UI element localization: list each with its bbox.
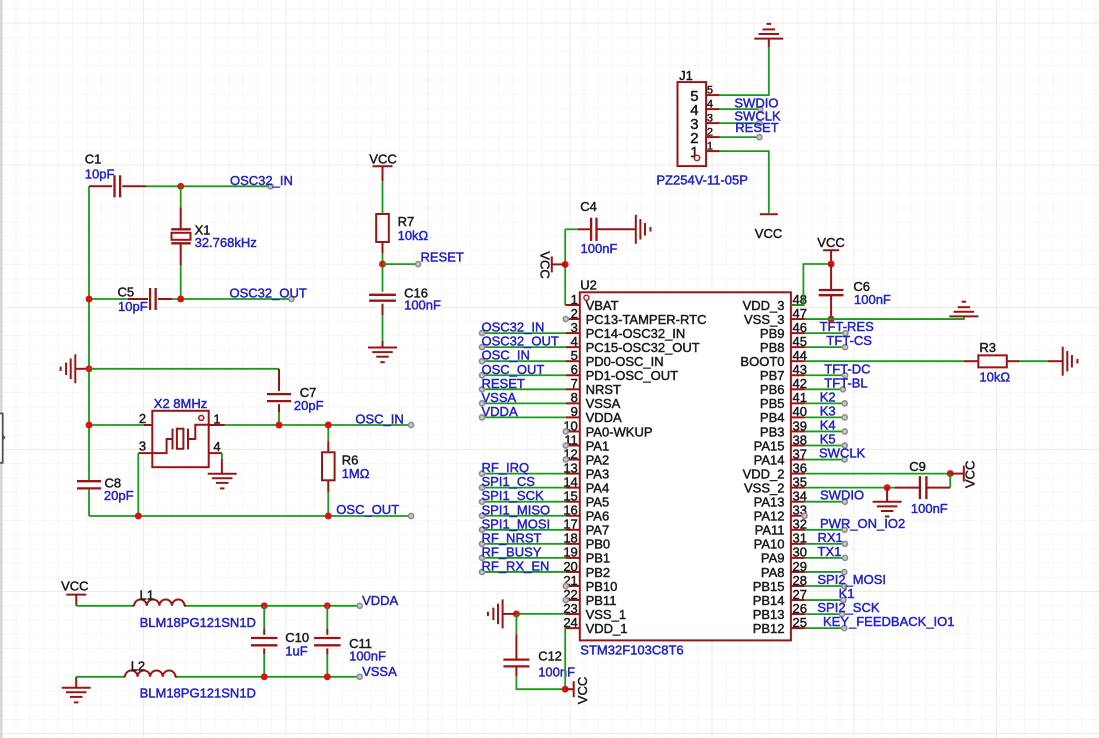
resistor R7 [376,214,428,253]
net label K1 (U2 pin 27) [839,586,855,603]
svg-text:RF_RX_EN: RF_RX_EN [482,558,550,573]
partial component (left edge) [0,414,6,463]
svg-text:VSSA: VSSA [586,396,621,411]
net label SPI1_MOSI (U2 pin 17) [479,516,550,532]
net label RESET [416,250,464,267]
svg-text:VSS_3: VSS_3 [744,312,784,327]
net label VSSA [357,664,397,679]
svg-text:7: 7 [571,376,578,391]
power VCC (L1) [61,579,88,606]
value BLM18PG121SN1D (L1) [140,615,256,630]
pin 10 PA0-WKUP [563,418,652,439]
net label VSSA (U2 pin 8) [479,390,516,406]
svg-text:1: 1 [707,141,713,153]
svg-text:OSC_IN: OSC_IN [355,411,403,426]
svg-text:R7: R7 [398,214,415,229]
svg-text:VDDA: VDDA [482,404,518,419]
net label OSC32_IN [230,173,293,189]
stub pin 12 [563,457,568,462]
svg-text:SWDIO: SWDIO [820,488,864,503]
resistor R3 [978,340,1019,384]
svg-text:10pF: 10pF [118,299,148,314]
svg-text:VCC: VCC [817,235,844,250]
node junction VDDA/C11 [324,602,331,609]
svg-text:6: 6 [571,362,578,377]
net label OSC32_OUT [230,286,307,302]
connector J1 [678,68,720,166]
svg-text:K3: K3 [820,403,836,418]
power VCC (VBAT) [537,251,565,278]
svg-text:PA11: PA11 [755,523,785,538]
svg-text:K5: K5 [820,432,836,447]
svg-text:BLM18PG121SN1D: BLM18PG121SN1D [140,686,256,701]
net label RESET (U2 pin 7) [479,376,524,392]
wire VDD_1 down [564,628,567,689]
svg-text:J1: J1 [679,68,693,83]
net label OSC32_OUT (U2 pin 4) [479,334,558,350]
pin 2 PC13-TAMPER-RTC [566,306,706,327]
svg-text:VCC: VCC [61,579,88,594]
svg-text:RESET: RESET [421,250,464,265]
svg-text:TFT-DC: TFT-DC [824,361,870,376]
pin 27 PB14 [753,587,807,608]
wire U2 pin 8 [482,402,566,404]
wire U2 pin 14 [482,487,566,489]
stub pin 22 [563,598,568,603]
svg-text:PC13-TAMPER-RTC: PC13-TAMPER-RTC [586,312,707,327]
capacitor C9 [895,459,950,516]
svg-text:32.768kHz: 32.768kHz [195,235,257,250]
ferrite bead L1 [134,587,184,606]
node junction C7/OSC_IN [276,422,283,429]
wire U2 pin 27 [805,599,844,601]
svg-text:5: 5 [707,85,713,97]
wire C9 loop [949,474,951,488]
pin 42 PB6 [760,376,807,397]
svg-text:RESET: RESET [482,376,525,391]
wire VDDA row [76,605,359,607]
pin 40 PB4 [760,404,807,425]
svg-text:PB9: PB9 [760,326,785,341]
node junction VSSA/C11 [324,673,331,680]
IC U2 STM32F103C8T6 [580,277,791,640]
net label RF_NRST (U2 pin 18) [479,530,541,546]
svg-text:TX1: TX1 [818,544,842,559]
capacitor C10 [251,606,309,677]
ground rail wire (left vertical) [88,186,90,516]
node junction R6/OSC_IN [325,422,332,429]
wire RESET stub [383,263,419,265]
svg-text:VDDA: VDDA [362,593,398,608]
net label RF_BUSY (U2 pin 19) [479,544,541,560]
wire U2 pin 39 [805,430,845,432]
svg-text:C9: C9 [909,459,926,474]
net label RX1 (U2 pin 31) [818,530,848,547]
svg-text:VDD_2: VDD_2 [743,466,785,481]
node junction VCC/VBAT [562,261,569,268]
svg-text:OSC32_IN: OSC32_IN [482,320,545,335]
svg-text:VCC: VCC [963,461,978,488]
capacitor C5 [118,285,156,315]
svg-text:1: 1 [213,412,220,427]
svg-text:5: 5 [571,348,578,363]
wire U2 pin 28 [805,585,845,587]
svg-text:PB4: PB4 [760,410,785,425]
svg-text:SPI1_MOSI: SPI1_MOSI [482,516,551,531]
svg-text:PA10: PA10 [754,537,785,552]
net label K4 (U2 pin 39) [820,417,848,434]
ground C16 [368,348,397,363]
value STM32F103C8T6 [580,643,683,658]
svg-text:PA15: PA15 [754,438,785,453]
net label SPI1_CS (U2 pin 14) [479,474,535,490]
svg-text:OSC32_OUT: OSC32_OUT [482,334,559,349]
svg-text:PB0: PB0 [586,537,611,552]
net label VDDA (U2 pin 9) [479,404,517,420]
svg-text:PA2: PA2 [586,452,610,467]
svg-text:BOOT0: BOOT0 [740,354,784,369]
net label TX1 (U2 pin 30) [818,544,848,561]
svg-text:3: 3 [139,439,146,454]
pin 35 VSS_2 [744,474,807,495]
svg-text:PA1: PA1 [586,438,610,453]
svg-text:4: 4 [571,334,578,349]
pin 11 PA1 [564,432,609,453]
svg-text:10pF: 10pF [85,167,115,182]
power VCC (J1) [755,214,782,241]
svg-text:RX1: RX1 [818,530,843,545]
wire U2 pin 31 [805,543,846,545]
pin 34 PA13 [754,489,807,510]
svg-text:RF_BUSY: RF_BUSY [482,544,542,559]
net label VDDA [357,593,398,608]
svg-text:100nF: 100nF [911,501,948,516]
node junction rail/ground [86,365,93,372]
power VCC (C9) [950,461,978,488]
wire U2 pin 7 [482,388,566,390]
stub pin 2 [563,317,568,322]
pin 21 PB10 [563,573,617,594]
wire VSS_3 to ground [805,316,964,319]
wire U2 pin 4 [482,346,566,348]
wire VDD_2 to VCC [805,473,951,475]
svg-text:PWR_ON_IO2: PWR_ON_IO2 [820,516,905,531]
svg-text:TFT-CS: TFT-CS [826,333,872,348]
wire U2 pin 13 [482,473,566,475]
svg-text:BLM18PG121SN1D: BLM18PG121SN1D [140,615,256,630]
net label TFT-CS (U2 pin 45) [826,333,872,350]
svg-text:100nF: 100nF [349,649,386,664]
ground L2 [62,688,91,703]
ground R3 (right earth) [1063,347,1078,376]
svg-text:PA13: PA13 [754,495,785,510]
svg-text:K2: K2 [820,389,836,404]
svg-text:VSSA: VSSA [482,390,517,405]
svg-text:C4: C4 [580,199,597,214]
wire U2 pin 37 [805,459,845,461]
net label SWDIO (U2 pin 34) [820,488,864,505]
ground C4 (right earth) [636,215,651,244]
wire J1 pin1 to VCC [720,151,769,213]
pin 28 PB15 [753,573,807,594]
wire X2 pin4 [209,453,222,474]
svg-text:1: 1 [571,292,578,307]
svg-text:L2: L2 [131,658,145,673]
svg-text:OSC32_OUT: OSC32_OUT [230,286,307,301]
svg-text:PB1: PB1 [586,551,611,566]
svg-text:KEY_FEEDBACK_IO1: KEY_FEEDBACK_IO1 [823,614,955,629]
wire U2 pin 6 [482,374,566,376]
svg-text:1uF: 1uF [285,643,307,658]
net label OSC_OUT [336,502,413,519]
stub pin 21 [563,583,568,588]
svg-text:C5: C5 [118,285,135,300]
svg-text:20pF: 20pF [294,398,324,413]
svg-text:VSS_1: VSS_1 [586,607,626,622]
capacitor C16 [369,286,441,348]
svg-text:VCC: VCC [537,251,552,278]
wire VSS_1 [516,613,566,615]
svg-text:PB6: PB6 [760,382,785,397]
svg-text:PA12: PA12 [754,509,785,524]
net label SPI1_SCK (U2 pin 15) [479,488,544,504]
wire VSS_2 to C9 [805,487,896,489]
net label RF_RX_EN (U2 pin 20) [479,558,549,574]
pin 32 PA11 [755,517,807,538]
pin 46 PB9 [760,320,807,341]
wire U2 pin 46 [805,332,846,334]
svg-text:SPI1_MISO: SPI1_MISO [482,502,551,517]
capacitor C6 [819,264,891,319]
pin 39 PB3 [760,418,807,439]
svg-text:R3: R3 [979,340,996,355]
node junction C6/VSS_3 [828,316,835,323]
svg-text:PD1-OSC_OUT: PD1-OSC_OUT [586,368,679,383]
wire OSC32_OUT row [89,298,292,300]
svg-text:OSC_OUT: OSC_OUT [482,362,545,377]
svg-text:100nF: 100nF [538,664,575,679]
svg-text:PB8: PB8 [760,340,785,355]
svg-text:2: 2 [707,127,713,139]
svg-text:PD0-OSC_IN: PD0-OSC_IN [586,354,664,369]
net label SWCLK (J1) [734,109,781,126]
ground VSS_3 (up earth) [949,302,978,317]
wire U2 pin 20 [482,571,566,573]
wire R3 to ground [1020,360,1063,362]
net label KEY_FEEDBACK_IO1 (U2 pin 25) [823,614,955,631]
pin 36 VDD_2 [743,460,807,481]
capacitor C7 [267,369,324,425]
net label SWDIO [734,95,778,111]
wire U2 pin 25 [805,627,845,629]
ground J1 top [754,24,783,47]
svg-text:2: 2 [139,411,146,426]
pin 9 VDDA [566,404,622,425]
net label OSC_IN (U2 pin 5) [479,348,529,364]
ground VSS_2 [873,488,902,517]
svg-text:VCC: VCC [755,226,782,241]
wire U2 pin 17 [482,529,566,531]
svg-text:PB7: PB7 [760,368,785,383]
value PZ254V-11-05P [656,172,748,187]
svg-text:PB15: PB15 [753,579,785,594]
ferrite bead L2 [125,658,175,677]
wire U2 pin 32 [805,529,845,531]
resistor R6 [322,425,370,516]
net label RESET (J1) [735,120,778,139]
svg-text:PB2: PB2 [586,565,611,580]
stub pin 10 [563,429,568,434]
value BLM18PG121SN1D (L2) [140,686,256,701]
pin 13 PA3 [563,460,609,481]
svg-text:RESET: RESET [735,120,778,135]
svg-text:PA9: PA9 [761,551,785,566]
stub pin 33 [802,513,807,518]
node junction OSC32_OUT [177,296,184,303]
node junction RESET [379,261,386,268]
svg-text:100nF: 100nF [854,292,891,307]
wire U2 pin 38 [805,445,845,447]
svg-text:VBAT: VBAT [586,298,619,313]
ground (left earth) [61,354,89,383]
pin 41 PB5 [760,390,807,411]
svg-text:TFT-RES: TFT-RES [820,319,874,334]
net label TFT-RES (U2 pin 46) [820,319,874,336]
svg-text:VCC: VCC [575,677,590,704]
pin 38 PA15 [754,432,807,453]
node junction R6/OSC_OUT [325,513,332,520]
svg-text:PA5: PA5 [586,495,610,510]
svg-text:100nF: 100nF [404,298,441,313]
svg-text:STM32F103C8T6: STM32F103C8T6 [580,643,683,658]
wire C4 to VCC/VBAT [565,229,580,305]
svg-text:PC15-OSC32_OUT: PC15-OSC32_OUT [586,340,700,355]
wire ground row to C7 [89,368,279,370]
svg-text:NRST: NRST [586,382,621,397]
svg-text:PB10: PB10 [586,579,618,594]
wire OSC32_IN row [89,185,271,187]
svg-text:3: 3 [707,113,713,125]
wire VDD_3 to VCC [791,264,831,305]
net label OSC_IN [355,411,413,427]
capacitor C4 [565,199,636,256]
pin 43 PB7 [760,362,807,383]
svg-text:VDD_1: VDD_1 [586,621,628,636]
pin 12 PA2 [563,446,609,467]
node junction VSS_1 [513,610,520,617]
wire VSSA row [76,677,360,688]
svg-text:4: 4 [707,99,713,111]
node junction VCC/C6 [828,261,835,268]
node junction OSC32_IN [177,183,184,190]
wire stub pin 29 [805,569,847,574]
node junction rail/X2 [86,422,93,429]
net label PWR_ON_IO2 (U2 pin 32) [820,516,905,533]
pin 14 PA4 [563,474,609,495]
svg-text:100nF: 100nF [581,241,618,256]
wire J1 pin4 SWDIO [720,108,761,110]
node junction VDDA/C10 [261,602,268,609]
net label SWCLK (U2 pin 37) [819,446,866,463]
pin 45 PB8 [760,334,807,355]
node junction rail/C5 [86,296,93,303]
wire U2 pin 16 [482,515,566,517]
node junction X2pin3/OSC_OUT [135,513,142,520]
svg-text:K4: K4 [820,417,836,432]
svg-text:10kΩ: 10kΩ [979,369,1010,384]
pin 22 PB11 [563,587,616,608]
wire U2 pin 45 [805,346,846,348]
svg-text:9: 9 [571,404,578,419]
pin 16 PA6 [563,503,609,524]
svg-text:PB3: PB3 [760,424,785,439]
pin 17 PA7 [563,517,609,538]
wire J1 pin3 SWCLK [720,122,760,124]
power VCC (C6) [817,235,844,261]
wire OSC_IN row [89,424,411,426]
capacitor C11 [314,606,386,677]
net label SPI2_SCK (U2 pin 26) [817,600,879,617]
svg-text:OSC_IN: OSC_IN [482,348,530,363]
net label TFT-DC (U2 pin 43) [824,361,870,378]
capacitor C8 [77,476,134,504]
pin 48 VDD_3 [743,292,807,313]
pin 3 PC14-OSC32_IN [566,320,685,341]
stub pin 11 [563,443,568,448]
pin 4 PC15-OSC32_OUT [566,334,700,355]
svg-text:C1: C1 [85,152,102,167]
svg-text:VSSA: VSSA [362,664,397,679]
svg-text:PZ254V-11-05P: PZ254V-11-05P [656,172,748,187]
svg-text:PB14: PB14 [753,593,785,608]
svg-text:SPI1_CS: SPI1_CS [482,474,536,489]
net label TFT-BL (U2 pin 42) [824,375,867,392]
svg-text:VDDA: VDDA [586,410,622,425]
svg-text:U2: U2 [580,277,597,292]
pin 7 NRST [566,376,621,397]
pin 23 VSS_1 [563,601,626,622]
svg-text:PA4: PA4 [586,480,610,495]
svg-text:VSS_2: VSS_2 [744,480,784,495]
net label K3 (U2 pin 40) [820,403,848,420]
wire U2 pin 9 [482,416,566,418]
net label OSC_OUT (U2 pin 6) [479,362,544,378]
pin 5 PD0-OSC_IN [566,348,664,369]
crystal X2 8MHz [139,396,221,467]
wire U2 pin 30 [805,557,846,559]
wire X2 pin3 to OSC_OUT [138,453,152,516]
pin 6 PD1-OSC_OUT [566,362,678,383]
svg-text:K1: K1 [839,586,855,601]
svg-text:PB13: PB13 [753,607,785,622]
svg-text:OSC_OUT: OSC_OUT [336,502,399,517]
svg-text:PA6: PA6 [586,509,610,524]
svg-text:8: 8 [571,390,578,405]
svg-text:C12: C12 [538,648,562,663]
node junction VSS_2/gnd [884,484,891,491]
pin 15 PA5 [563,489,609,510]
wire U2 pin 34 [805,501,845,503]
power VCC (R7) [369,152,396,182]
wire U2 pin 41 [805,402,845,404]
pin 33 PA12 [754,503,807,524]
wire R7 to C16 [382,253,384,292]
svg-text:VDD_3: VDD_3 [743,298,785,313]
pin 31 PA10 [754,531,807,552]
wire VCC to R7 [382,181,384,214]
wire gnd to J1 pin5 [720,47,769,95]
pin 25 PB12 [753,615,807,636]
